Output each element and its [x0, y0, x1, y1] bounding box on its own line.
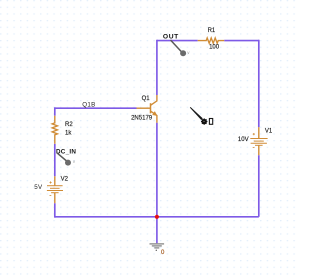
wire: left vertical R2 bottom to V2 top	[54, 144, 56, 177]
svg-text:100: 100	[209, 45, 220, 51]
svg-text:1k: 1k	[65, 130, 72, 136]
emitter arrowhead	[153, 112, 157, 116]
wire: ground stem	[156, 217, 158, 243]
svg-text:5V: 5V	[34, 184, 43, 191]
battery V2	[47, 176, 63, 203]
wire: base net Q1B horizontal	[54, 107, 137, 109]
battery V1	[250, 127, 267, 155]
wire: emitter vertical down to bottom net	[156, 123, 158, 217]
transistor Q1 2N5179	[137, 95, 157, 123]
resistor R2	[52, 116, 57, 144]
resistor R1	[198, 38, 225, 43]
svg-text:Q1B: Q1B	[82, 102, 95, 109]
svg-text:V1: V1	[265, 129, 273, 135]
wire: top net from R1 right to top-right corner	[224, 40, 259, 42]
svg-text:10V: 10V	[238, 137, 249, 143]
svg-text:Q1: Q1	[142, 96, 151, 102]
wire: right vertical from V1 bottom to bottom-right corner	[258, 155, 260, 217]
wire: bottom net	[55, 216, 259, 218]
svg-text:R1: R1	[208, 28, 216, 34]
wire: right vertical from top corner down to V1 top	[258, 40, 260, 127]
svg-text:R2: R2	[65, 122, 73, 128]
svg-text:OUT: OUT	[163, 34, 179, 41]
current probe	[190, 107, 203, 120]
probe OUT	[171, 40, 182, 52]
svg-text:2N5179: 2N5179	[131, 116, 153, 122]
ground	[150, 244, 165, 248]
current probe label box	[209, 119, 212, 125]
probe DC_IN	[58, 153, 67, 161]
wire: left vertical corner to R2 top	[54, 107, 56, 115]
wire: top net from collector corner to R1 left	[157, 40, 198, 42]
svg-text:V2: V2	[61, 177, 69, 183]
wire: collector vertical	[156, 40, 158, 95]
junction dot (red)	[155, 215, 159, 219]
wire: left vertical V2 bottom to bottom-left corner	[54, 203, 56, 217]
